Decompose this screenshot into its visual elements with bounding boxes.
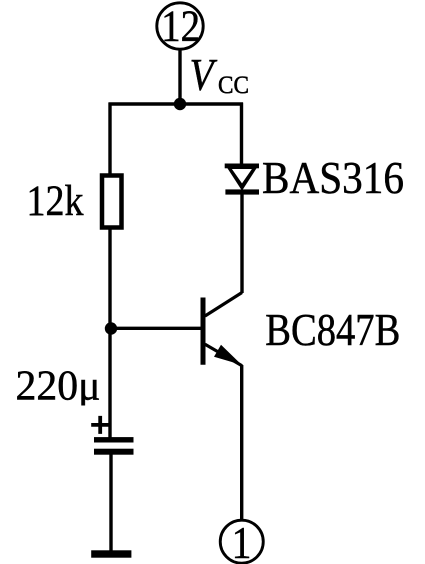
- transistor Q1 base bar: [201, 298, 206, 365]
- svg-text:BAS316: BAS316: [262, 152, 404, 203]
- wire from terminal 12 down to Vcc node: [178, 49, 181, 104]
- svg-text:12k: 12k: [27, 177, 84, 225]
- wire diode to collector: [240, 194, 243, 293]
- diode D1 top bar: [225, 164, 259, 169]
- svg-text:1: 1: [232, 518, 252, 564]
- capacitor plus polarity mark: [91, 416, 109, 434]
- transistor Q1 emitter arrow: [214, 345, 242, 365]
- wire emitter down to terminal 1: [240, 365, 243, 520]
- ground bar: [91, 550, 131, 557]
- net label Vcc: [190, 50, 250, 100]
- diode D1 triangle inner white: [232, 169, 252, 183]
- wire base node down to capacitor: [108, 328, 111, 439]
- wire right branch down to diode: [240, 103, 243, 166]
- terminal circle 12: [157, 3, 203, 49]
- transistor Q1 emitter lead: [205, 344, 242, 366]
- svg-text:12: 12: [161, 2, 200, 51]
- wire base node to transistor base: [111, 327, 201, 330]
- svg-text:BC847B: BC847B: [265, 304, 400, 355]
- diode D1 triangle outer: [226, 166, 258, 191]
- svg-text:CC: CC: [218, 72, 249, 99]
- svg-text:220μ: 220μ: [16, 364, 101, 410]
- diode D1 cathode bar: [225, 189, 259, 194]
- capacitor C1 bottom plate: [94, 449, 134, 455]
- transistor Q1 collector lead: [205, 293, 242, 317]
- wire left branch down to resistor: [108, 103, 111, 176]
- terminal circle 1: [220, 520, 263, 563]
- resistor R1 body: [102, 176, 122, 228]
- wire capacitor to ground: [109, 454, 112, 551]
- capacitor C1 top plate: [94, 437, 134, 442]
- svg-text:V: V: [190, 50, 218, 100]
- wire Vcc rail horizontal: [109, 102, 244, 105]
- junction dot base node: [105, 322, 117, 334]
- junction dot Vcc node: [174, 98, 186, 110]
- wire resistor to base node: [108, 228, 111, 330]
